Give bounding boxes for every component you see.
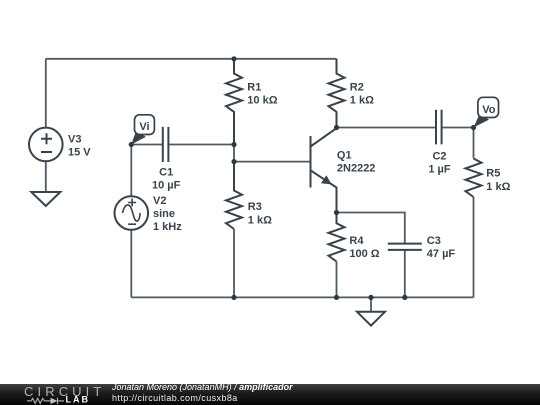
resistor R4 (329, 213, 345, 262)
node R3/base (231, 159, 236, 164)
wire R1-R3 junction vertical (233, 145, 235, 162)
wire Vi node down to V2 (130, 145, 132, 197)
svg-text:47 µF: 47 µF (427, 248, 456, 260)
node R1/C1 (231, 142, 236, 147)
svg-text:15 V: 15 V (68, 147, 91, 159)
resistor R3 (226, 162, 242, 229)
svg-text:sine: sine (153, 208, 175, 220)
resistor R1 (226, 59, 242, 145)
node top rail / R1 (231, 56, 236, 61)
svg-text:Vi: Vi (139, 121, 149, 133)
node Vi (129, 142, 134, 147)
voltage source V2 (sine) (115, 196, 149, 230)
svg-text:C2: C2 (432, 150, 446, 162)
wire C1 to node (168, 144, 234, 146)
svg-text:1 kΩ: 1 kΩ (350, 95, 374, 107)
wire bottom rail (131, 296, 473, 298)
svg-text:V2: V2 (153, 195, 166, 207)
svg-text:100 Ω: 100 Ω (349, 248, 379, 260)
wire Vo node down to R5 (473, 128, 475, 159)
transistor Q1 (311, 128, 337, 212)
node ground/rail (368, 295, 373, 300)
svg-text:C1: C1 (159, 166, 173, 178)
capacitor C3 (388, 244, 422, 250)
capacitor C1 (163, 127, 169, 162)
capacitor C2 (436, 110, 442, 145)
ground (bottom) (357, 312, 385, 326)
svg-text:R5: R5 (486, 168, 500, 180)
wire ground stub bottom (370, 297, 372, 311)
svg-text:10 kΩ: 10 kΩ (247, 95, 277, 107)
wire C2 to Vo node (442, 127, 474, 129)
wire emitter node to C3 (337, 213, 405, 244)
node collector (334, 125, 339, 130)
svg-text:R2: R2 (350, 81, 364, 93)
voltage source V3 (29, 128, 63, 162)
footer line 2 (112, 393, 238, 403)
svg-text:Vo: Vo (482, 104, 496, 116)
resistor R2 (329, 59, 345, 128)
wire collector node to C2 (337, 127, 437, 129)
svg-text:R4: R4 (349, 235, 364, 247)
wire top rail (46, 58, 337, 60)
wire R3 bottom to rail (233, 229, 235, 297)
node R3/rail (231, 295, 236, 300)
wire V3 top lead (45, 59, 47, 128)
wire base of Q1 (234, 161, 310, 163)
ground (V3) (31, 192, 60, 206)
node label Vi (131, 115, 154, 145)
svg-text:R1: R1 (247, 81, 261, 93)
wire C3 bottom to rail (404, 250, 406, 298)
svg-text:2N2222: 2N2222 (337, 162, 376, 174)
wire Vi to C1 (131, 144, 163, 146)
node emitter (334, 210, 339, 215)
footer line 1 (112, 382, 293, 392)
svg-text:1 kHz: 1 kHz (153, 221, 182, 233)
wire R4 bottom to rail (336, 262, 338, 298)
svg-text:V3: V3 (68, 133, 81, 145)
svg-text:1 µF: 1 µF (428, 163, 451, 175)
svg-text:Q1: Q1 (337, 149, 352, 161)
node label Vo (474, 97, 499, 127)
svg-text:R3: R3 (248, 201, 262, 213)
wire V3 bottom lead (45, 161, 47, 192)
wire R5 bottom to rail (473, 197, 475, 297)
svg-text:1 kΩ: 1 kΩ (248, 214, 272, 226)
CircuitLab logo (0, 384, 110, 405)
svg-text:10 µF: 10 µF (152, 179, 181, 191)
node C3/rail (402, 295, 407, 300)
wire V2 bottom to rail (130, 230, 132, 298)
node R4/rail (334, 295, 339, 300)
footer bar (0, 384, 540, 405)
svg-text:LAB: LAB (66, 395, 91, 405)
resistor R5 (466, 159, 482, 198)
node Vo (471, 125, 476, 130)
svg-text:C3: C3 (427, 235, 441, 247)
svg-text:1 kΩ: 1 kΩ (486, 181, 510, 193)
